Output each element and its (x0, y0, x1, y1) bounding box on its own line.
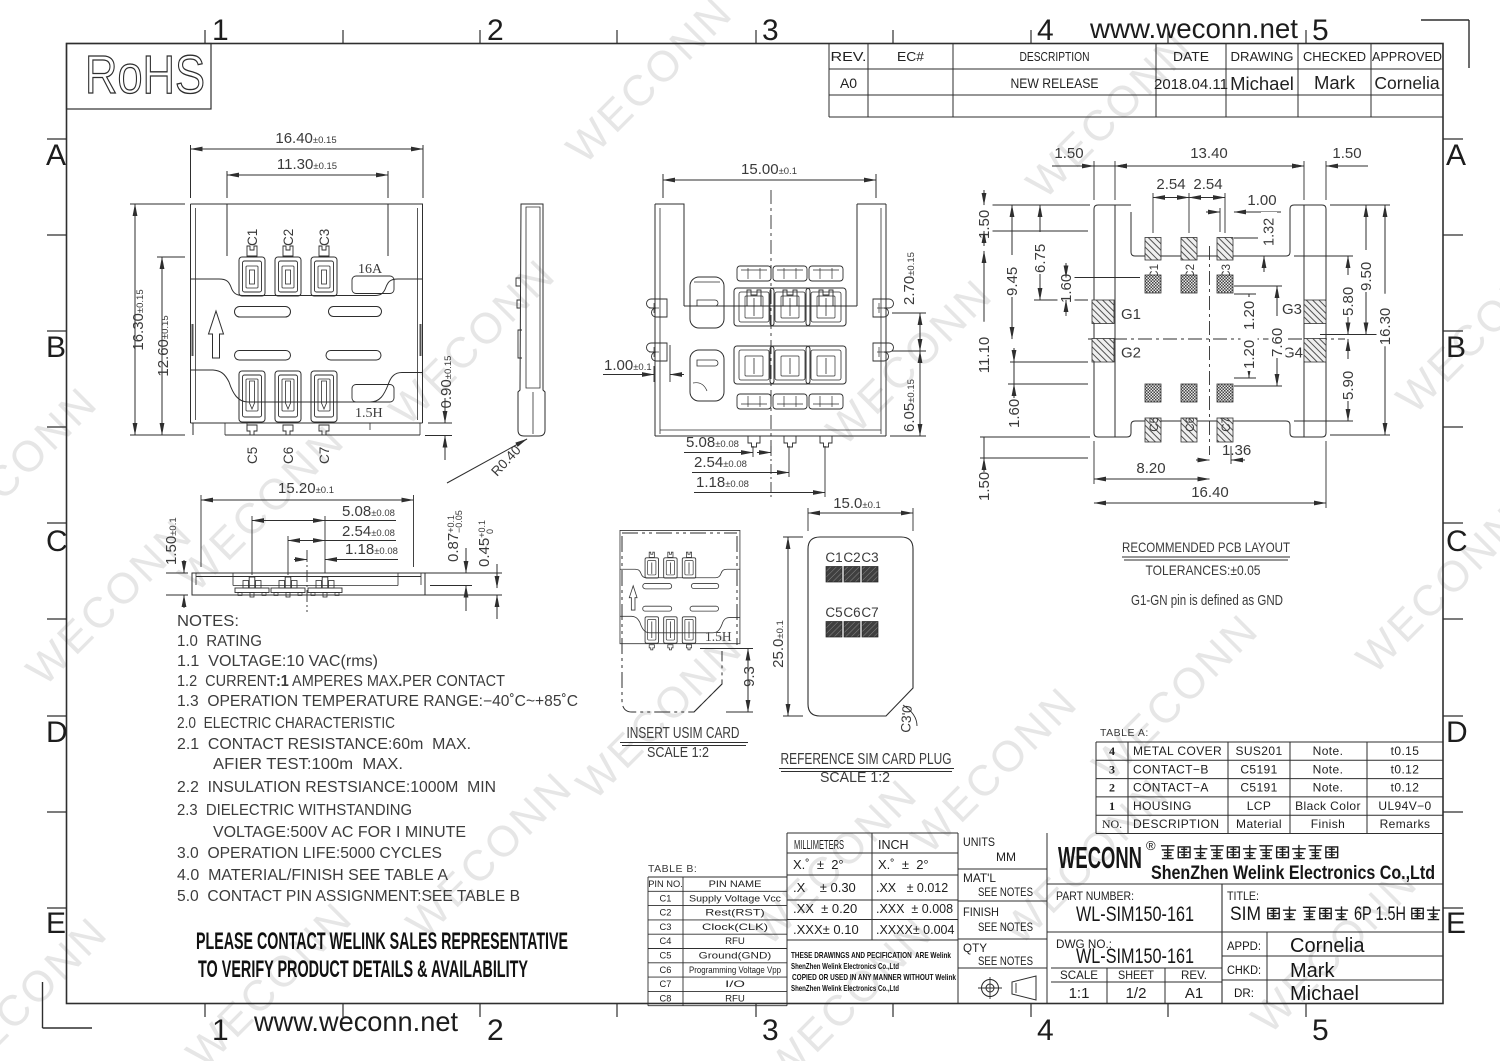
svg-text:11.10: 11.10 (976, 337, 993, 373)
svg-text:G2: G2 (1121, 345, 1141, 362)
svg-text:t0.12: t0.12 (1391, 781, 1420, 795)
svg-text:Mark: Mark (1290, 960, 1335, 982)
svg-text:SCALE: SCALE (1060, 968, 1098, 982)
svg-text:Remarks: Remarks (1380, 817, 1431, 831)
svg-text:C5: C5 (825, 605, 842, 620)
svg-text:NOTES:: NOTES: (177, 613, 239, 630)
svg-text:C5: C5 (660, 951, 672, 961)
pad G1 pcb (1092, 300, 1141, 324)
svg-text:C2: C2 (843, 550, 860, 565)
pcb dim 1.60 upper (1058, 262, 1141, 316)
svg-text:Michael: Michael (1290, 983, 1359, 1005)
svg-text:C7: C7 (317, 447, 332, 464)
sim pad C2 (843, 550, 860, 582)
svg-text:RFU: RFU (725, 993, 745, 1003)
notes text block (177, 613, 578, 905)
contact C6 top view (275, 371, 301, 435)
svg-text:REFERENCE SIM CARD PLUG: REFERENCE SIM CARD PLUG (781, 751, 952, 768)
svg-text:1: 1 (1109, 799, 1115, 813)
svg-text:1.18±0.08: 1.18±0.08 (696, 474, 749, 491)
svg-text:www.weconn.net: www.weconn.net (1089, 13, 1298, 44)
legal text (791, 950, 956, 993)
center line bottom view (306, 550, 308, 612)
svg-text:1.60: 1.60 (1006, 399, 1023, 428)
svg-text:DR:: DR: (1234, 988, 1254, 1000)
svg-text:2: 2 (1109, 781, 1115, 795)
svg-text:4.0 MATERIAL/FINISH SEE TABLE: 4.0 MATERIAL/FINISH SEE TABLE A (177, 867, 449, 884)
RoHS logo box (67, 44, 212, 110)
svg-text:C5: C5 (245, 447, 260, 464)
svg-text:3: 3 (762, 1014, 779, 1047)
pcb dim 11.10 (976, 251, 1089, 374)
part number (1056, 891, 1194, 926)
svg-text:INCH: INCH (878, 838, 909, 852)
svg-text:C1: C1 (825, 550, 842, 565)
company chinese name (1161, 845, 1338, 859)
svg-text:DRAWING: DRAWING (1231, 50, 1294, 64)
pad C5 inner pcb (1145, 384, 1161, 402)
title REFERENCE SIM CARD PLUG (779, 751, 954, 786)
contact C5 top view (239, 371, 265, 435)
please contact banner (196, 928, 568, 983)
sim pad C6 (843, 605, 860, 637)
title block frame (1047, 884, 1443, 1004)
svg-text:SCALE 1:2: SCALE 1:2 (647, 744, 709, 761)
svg-text:.XXX± 0.10: .XXX± 0.10 (793, 922, 859, 937)
svg-text:2.54±0.08: 2.54±0.08 (342, 523, 395, 540)
contact C2 top view (275, 246, 301, 296)
dim 0.90 (425, 356, 455, 460)
svg-text:.XX ± 0.20: .XX ± 0.20 (793, 901, 857, 916)
svg-text:2: 2 (487, 1014, 504, 1047)
svg-text:1.60: 1.60 (1058, 274, 1075, 303)
svg-text:SUS201: SUS201 (1235, 744, 1282, 758)
svg-text:16A: 16A (358, 262, 383, 277)
dim 9.3 (700, 649, 758, 713)
svg-text:.XXX ± 0.008: .XXX ± 0.008 (876, 902, 953, 916)
svg-text:.XX ± 0.012: .XX ± 0.012 (876, 881, 948, 895)
svg-text:NO.: NO. (1102, 817, 1122, 831)
table A materials (1096, 727, 1443, 834)
pad C7 inner pcb (1217, 384, 1233, 402)
pcb dim 1.50 left bottom (976, 437, 1091, 503)
contact C3 top view (311, 246, 337, 296)
svg-text:2.70±0.15: 2.70±0.15 (901, 252, 918, 305)
svg-text:G3: G3 (1282, 301, 1302, 318)
svg-text:1.5H: 1.5H (705, 629, 732, 644)
pcb center lines (1088, 246, 1345, 455)
svg-text:.XXXX± 0.004: .XXXX± 0.004 (876, 923, 954, 937)
svg-text:1: 1 (212, 1014, 229, 1047)
svg-text:SEE NOTES: SEE NOTES (978, 954, 1033, 968)
svg-text:FINISH: FINISH (963, 905, 999, 919)
svg-text:SIM: SIM (1230, 904, 1261, 925)
svg-text:ShenZhen Welink Electronics Co: ShenZhen Welink Electronics Co.,Ltd (791, 961, 899, 971)
svg-text:16.30±0.15: 16.30±0.15 (130, 289, 147, 350)
svg-text:Material: Material (1236, 817, 1282, 831)
bottom profile body (192, 573, 425, 595)
svg-text:1.20: 1.20 (1241, 340, 1258, 369)
svg-text:METAL COVER: METAL COVER (1133, 744, 1222, 758)
svg-text:16.30: 16.30 (1377, 308, 1394, 346)
scale sheet rev (1060, 968, 1207, 1002)
svg-text:4: 4 (1037, 1014, 1054, 1047)
svg-text:WECONN: WECONN (558, 0, 743, 173)
svg-text:C5191: C5191 (1240, 762, 1277, 776)
svg-text:Finish: Finish (1311, 817, 1345, 831)
cover slots (235, 307, 382, 361)
title INSERT USIM CARD (620, 725, 748, 761)
svg-text:A: A (1446, 139, 1466, 172)
svg-text:WECONN: WECONN (381, 250, 566, 435)
svg-text:DESCRIPTION: DESCRIPTION (1133, 817, 1219, 831)
svg-text:RECOMMENDED PCB LAYOUT: RECOMMENDED PCB LAYOUT (1122, 539, 1290, 555)
pad C1 inner pcb (1145, 275, 1161, 293)
pcb dim 1.60 lower (1006, 348, 1089, 429)
svg-text:C7: C7 (861, 605, 878, 620)
pcb dim 1.36 (1196, 442, 1251, 464)
svg-text:15.00±0.1: 15.00±0.1 (741, 161, 797, 178)
svg-text:1.1 VOLTAGE:10 VAC(rms): 1.1 VOLTAGE:10 VAC(rms) (177, 653, 378, 670)
svg-text:I/O: I/O (725, 979, 745, 989)
svg-text:CHECKED: CHECKED (1303, 50, 1366, 64)
svg-text:MILLIMETERS: MILLIMETERS (794, 838, 844, 852)
svg-text:7.60: 7.60 (1269, 328, 1286, 357)
svg-text:t0.12: t0.12 (1391, 762, 1420, 776)
svg-text:C7: C7 (1221, 417, 1233, 432)
third angle projection symbol (978, 976, 1036, 1000)
svg-text:Rest(RST): Rest(RST) (705, 908, 764, 918)
svg-text:2.54: 2.54 (1193, 176, 1222, 193)
svg-text:REV.: REV. (831, 50, 867, 64)
svg-text:A: A (46, 139, 66, 172)
dim 2.70 (892, 252, 926, 351)
pad C3 pcb (1217, 238, 1233, 279)
contact feet C6 bottom view (271, 577, 305, 597)
svg-text:EC#: EC# (897, 50, 924, 64)
contact C7 top view (311, 371, 337, 435)
svg-text:NEW RELEASE: NEW RELEASE (1011, 76, 1099, 91)
svg-text:1.00: 1.00 (1247, 192, 1276, 209)
dim 16.40 (191, 130, 424, 198)
svg-text:VOLTAGE:500V AC FOR I MINUTE: VOLTAGE:500V AC FOR I MINUTE (213, 824, 466, 841)
svg-text:Note.: Note. (1313, 762, 1344, 776)
svg-text:1.50: 1.50 (1054, 145, 1083, 162)
svg-text:WL-SIM150-161: WL-SIM150-161 (1076, 903, 1194, 926)
svg-text:1.50: 1.50 (976, 210, 993, 239)
pcb dim 5.90 (1294, 339, 1357, 421)
svg-text:5.08±0.08: 5.08±0.08 (342, 503, 395, 520)
svg-text:C6: C6 (281, 447, 296, 464)
dim 1.00 left (603, 345, 684, 382)
svg-text:CONTACT−B: CONTACT−B (1133, 762, 1209, 776)
svg-text:15.20±0.1: 15.20±0.1 (278, 480, 334, 497)
svg-text:1.50: 1.50 (1332, 145, 1361, 162)
svg-text:6P 1.5H: 6P 1.5H (1354, 904, 1406, 925)
svg-text:C5191: C5191 (1240, 781, 1277, 795)
dim 2.54 bottom (288, 523, 396, 575)
svg-text:15.0±0.1: 15.0±0.1 (833, 495, 881, 512)
contact C1 top view (239, 246, 265, 296)
svg-text:C6: C6 (843, 605, 860, 620)
svg-text:C8: C8 (660, 993, 672, 1003)
sim card plug outline (808, 537, 913, 716)
pad C2 inner pcb (1181, 275, 1197, 293)
svg-text:9.45: 9.45 (1004, 267, 1021, 296)
svg-text:CHKD:: CHKD: (1227, 965, 1261, 977)
dim 0.45 (425, 520, 502, 619)
svg-text:WECONN: WECONN (1348, 498, 1500, 683)
svg-text:C: C (1446, 525, 1468, 558)
sim pad C7 (861, 605, 878, 637)
pcb dim 5.80 (1294, 256, 1357, 335)
svg-text:G1-GN pin is defined as GND: G1-GN pin is defined as GND (1131, 593, 1283, 609)
sim pad C5 (825, 605, 842, 637)
polarization islands (690, 277, 724, 401)
svg-text:0.45+0.10: 0.45+0.10 (476, 520, 495, 567)
svg-text:PIN NO.: PIN NO. (648, 879, 683, 889)
svg-text:Black Color: Black Color (1295, 799, 1361, 813)
svg-text:5.80: 5.80 (1340, 287, 1357, 316)
svg-text:1: 1 (212, 14, 229, 47)
svg-text:DESCRIPTION: DESCRIPTION (1020, 50, 1090, 64)
svg-text:C1: C1 (245, 229, 260, 246)
svg-text:E: E (1446, 907, 1466, 940)
svg-text:2.1 CONTACT RESISTANCE:60m M: 2.1 CONTACT RESISTANCE:60m MAX. (177, 736, 471, 753)
card slot opening (227, 204, 388, 256)
svg-text:2.54: 2.54 (1156, 176, 1185, 193)
svg-text:TABLE A:: TABLE A: (1100, 727, 1149, 739)
svg-text:9.50: 9.50 (1358, 262, 1375, 291)
svg-text:WECONN: WECONN (903, 678, 1088, 863)
svg-text:2.2 INSULATION RESTSIANCE:100: 2.2 INSULATION RESTSIANCE:1000M MIN (177, 779, 496, 796)
svg-text:C7: C7 (660, 979, 672, 989)
pad C6 pcb (1181, 417, 1197, 442)
svg-text:TABLE B:: TABLE B: (648, 863, 697, 875)
svg-text:C1: C1 (660, 893, 672, 903)
svg-text:5.90: 5.90 (1340, 371, 1357, 400)
svg-text:INSERT USIM CARD: INSERT USIM CARD (627, 725, 740, 742)
svg-text:Ground(GND): Ground(GND) (699, 951, 772, 961)
svg-text:1.50: 1.50 (976, 472, 993, 501)
svg-text:C2: C2 (281, 229, 296, 246)
pad G3 pcb (1282, 300, 1326, 324)
svg-text:1.00±0.1: 1.00±0.1 (604, 357, 652, 374)
svg-text:QTY: QTY (963, 941, 987, 955)
contact feet C7 bottom view (308, 577, 342, 597)
svg-text:.X ± 0.30: .X ± 0.30 (793, 880, 856, 895)
svg-text:SEE NOTES: SEE NOTES (978, 920, 1033, 934)
dim 25.0 card (770, 537, 803, 716)
svg-text:16.40: 16.40 (1191, 484, 1229, 501)
svg-text:RoHS: RoHS (85, 45, 205, 105)
units column (958, 833, 1047, 1004)
svg-text:B: B (1446, 331, 1466, 364)
svg-text:WL-SIM150-161: WL-SIM150-161 (1076, 945, 1194, 968)
pad C3 inner pcb (1217, 275, 1233, 293)
sim pad C3 (861, 550, 878, 582)
svg-text:Note.: Note. (1313, 744, 1344, 758)
pad C7 pcb (1217, 417, 1233, 442)
svg-text:2.54±0.08: 2.54±0.08 (694, 454, 747, 471)
top view connector body outline (191, 204, 424, 435)
pcb dim 1.50 left top (976, 190, 1091, 246)
svg-text:C3'0: C3'0 (898, 705, 915, 733)
svg-text:C6: C6 (1185, 417, 1197, 432)
pcb dim 8.20 (1094, 441, 1210, 484)
approvals (1227, 935, 1365, 1005)
svg-text:SEE NOTES: SEE NOTES (978, 885, 1033, 899)
dim 0.87 (425, 510, 502, 611)
svg-text:A1: A1 (1185, 985, 1203, 1002)
svg-text:PIN NAME: PIN NAME (709, 879, 762, 889)
side lock tabs (647, 299, 894, 361)
contact column 1 center view (734, 266, 774, 447)
svg-text:5: 5 (1312, 1014, 1329, 1047)
table B pin assignment (648, 863, 787, 1006)
pcb dim 7.60 (1234, 286, 1286, 386)
revision table (829, 44, 1443, 118)
svg-text:REV.: REV. (1181, 968, 1207, 982)
svg-text:www.weconn.net: www.weconn.net (253, 1006, 458, 1037)
svg-text:2: 2 (487, 14, 504, 47)
contact feet C5 bottom view (235, 577, 269, 597)
tolerance table mm inch (787, 833, 958, 1004)
svg-text:PLEASE CONTACT WELINK SALES RE: PLEASE CONTACT WELINK SALES REPRESENTATI… (196, 928, 568, 955)
svg-text:APPROVED: APPROVED (1372, 50, 1442, 64)
svg-text:X.˚ ± 2°: X.˚ ± 2° (878, 857, 929, 872)
svg-text:C6: C6 (660, 965, 672, 975)
chain dims 5.08 2.54 1.18 center view (684, 434, 825, 497)
svg-text:DATE: DATE (1173, 50, 1209, 64)
svg-text:SHEET: SHEET (1118, 968, 1155, 982)
svg-text:Supply Voltage Vcc: Supply Voltage Vcc (689, 893, 781, 903)
svg-text:8.20: 8.20 (1136, 460, 1165, 477)
label R0.40 (447, 439, 527, 483)
svg-text:E: E (46, 907, 66, 940)
svg-text:Cornelia: Cornelia (1374, 73, 1439, 93)
contact column 3 center view (806, 266, 846, 447)
weconn logo (1058, 838, 1156, 875)
svg-text:TOLERANCES:±0.05: TOLERANCES:±0.05 (1146, 562, 1261, 578)
pcb dim 1.20-1.20 (1234, 294, 1258, 378)
metal cover plate (191, 276, 423, 402)
svg-text:WECONN: WECONN (1058, 840, 1142, 875)
dim 16.30 (130, 204, 185, 435)
svg-text:G1: G1 (1121, 306, 1141, 323)
svg-text:ShenZhen Welink Electronics Co: ShenZhen Welink Electronics Co.,Ltd (1151, 862, 1435, 884)
svg-text:2018.04.11: 2018.04.11 (1154, 76, 1228, 93)
center line vertical (770, 190, 772, 452)
svg-text:TO VERIFY PRODUCT DETAILS & AV: TO VERIFY PRODUCT DETAILS & AVAILABILITY (198, 956, 528, 983)
svg-text:C3: C3 (317, 229, 332, 246)
dim 5.08 bottom (252, 503, 396, 575)
dim 11.30 (227, 156, 388, 198)
latch right (420, 324, 422, 356)
dwg no field (1056, 939, 1194, 968)
svg-text:A0: A0 (840, 75, 857, 91)
svg-text:UNITS: UNITS (963, 835, 995, 849)
dim 15.00 (663, 161, 876, 198)
svg-text:MM: MM (996, 850, 1016, 864)
contact column 2 center view (770, 266, 810, 447)
svg-text:SCALE 1:2: SCALE 1:2 (820, 769, 890, 786)
svg-text:D: D (46, 716, 68, 749)
dim 12.60 (155, 257, 185, 435)
pcb dim 9.50 (1320, 205, 1390, 335)
svg-text:1.2 CURRENT:1 AMPERES MAX.PER: 1.2 CURRENT:1 AMPERES MAX.PER CONTACT (177, 673, 505, 690)
svg-text:5.08±0.08: 5.08±0.08 (686, 434, 739, 451)
svg-text:Michael: Michael (1230, 73, 1294, 94)
dim 15.0 card (808, 495, 913, 531)
center view housing outline (655, 204, 886, 436)
pad C2 pcb (1181, 238, 1197, 279)
svg-text:1:1: 1:1 (1069, 985, 1090, 1002)
svg-text:1/2: 1/2 (1126, 985, 1147, 1002)
latch left (192, 324, 194, 356)
svg-text:C4: C4 (660, 936, 672, 946)
svg-text:1.36: 1.36 (1222, 442, 1251, 459)
pcb dim 6.75 (1032, 205, 1089, 300)
svg-text:4: 4 (1109, 744, 1115, 758)
svg-text:Programming Voltage Vpp: Programming Voltage Vpp (689, 965, 781, 975)
pcb dim 16.30 (1330, 205, 1394, 435)
svg-text:1.5H: 1.5H (355, 406, 383, 421)
svg-text:X.˚ ± 2°: X.˚ ± 2° (793, 857, 844, 872)
svg-text:THESE DRAWINGS AND PECIFICATIO: THESE DRAWINGS AND PECIFICATION ARE Weli… (791, 950, 951, 960)
svg-text:1.3 OPERATION TEMPERATURE RAN: 1.3 OPERATION TEMPERATURE RANGE:−40˚C~+8… (177, 693, 578, 710)
svg-text:HOUSING: HOUSING (1133, 799, 1192, 813)
svg-text:Mark: Mark (1314, 72, 1356, 93)
pad C5 pcb (1145, 417, 1161, 442)
svg-text:®: ® (1146, 838, 1156, 853)
svg-text:PART NUMBER:: PART NUMBER: (1056, 891, 1134, 903)
svg-text:12.60±0.15: 12.60±0.15 (155, 315, 172, 376)
side view profile (516, 204, 545, 436)
svg-text:6.75: 6.75 (1032, 244, 1049, 273)
svg-text:UL94V−0: UL94V−0 (1378, 799, 1431, 813)
svg-text:0.87+0.1−0.05: 0.87+0.1−0.05 (445, 510, 464, 562)
svg-text:1.20: 1.20 (1241, 301, 1258, 330)
svg-text:R0.40: R0.40 (488, 442, 524, 479)
svg-text:5.0 CONTACT PIN ASSIGNMENT:SE: 5.0 CONTACT PIN ASSIGNMENT:SEE TABLE B (177, 888, 520, 905)
svg-text:2.0 ELECTRIC CHARACTERISTIC: 2.0 ELECTRIC CHARACTERISTIC (177, 715, 395, 732)
svg-text:5: 5 (1312, 14, 1329, 47)
svg-text:3: 3 (762, 14, 779, 47)
svg-text:9.3: 9.3 (741, 666, 758, 687)
svg-text:Clock(CLK): Clock(CLK) (702, 922, 768, 932)
pcb dim 16.40 (1094, 441, 1326, 508)
svg-text:CONTACT−A: CONTACT−A (1133, 781, 1209, 795)
usim card outline dashed (622, 533, 737, 712)
svg-text:C5: C5 (1149, 417, 1161, 432)
svg-text:13.40: 13.40 (1190, 145, 1228, 162)
svg-text:1.0 RATING: 1.0 RATING (177, 633, 262, 650)
svg-text:LCP: LCP (1247, 799, 1272, 813)
svg-text:2.3 DIELECTRIC WITHSTANDING: 2.3 DIELECTRIC WITHSTANDING (177, 802, 412, 819)
pad G2 pcb (1092, 339, 1141, 363)
svg-text:16.40±0.15: 16.40±0.15 (275, 130, 336, 147)
title field (1227, 891, 1440, 925)
svg-text:D: D (1446, 716, 1468, 749)
svg-text:COPIED OR USED IN ANY MANNER W: COPIED OR USED IN ANY MANNER WITHOUT Wel… (792, 972, 956, 982)
pcb dim 9.45 (1004, 205, 1022, 339)
svg-text:AFIER TEST:100m MAX.: AFIER TEST:100m MAX. (213, 756, 403, 773)
svg-text:Cornelia: Cornelia (1290, 935, 1365, 957)
insert usim card view connector (scaled copy) (620, 530, 740, 649)
dim 15.20 (201, 480, 414, 567)
pad C6 inner pcb (1181, 384, 1197, 402)
